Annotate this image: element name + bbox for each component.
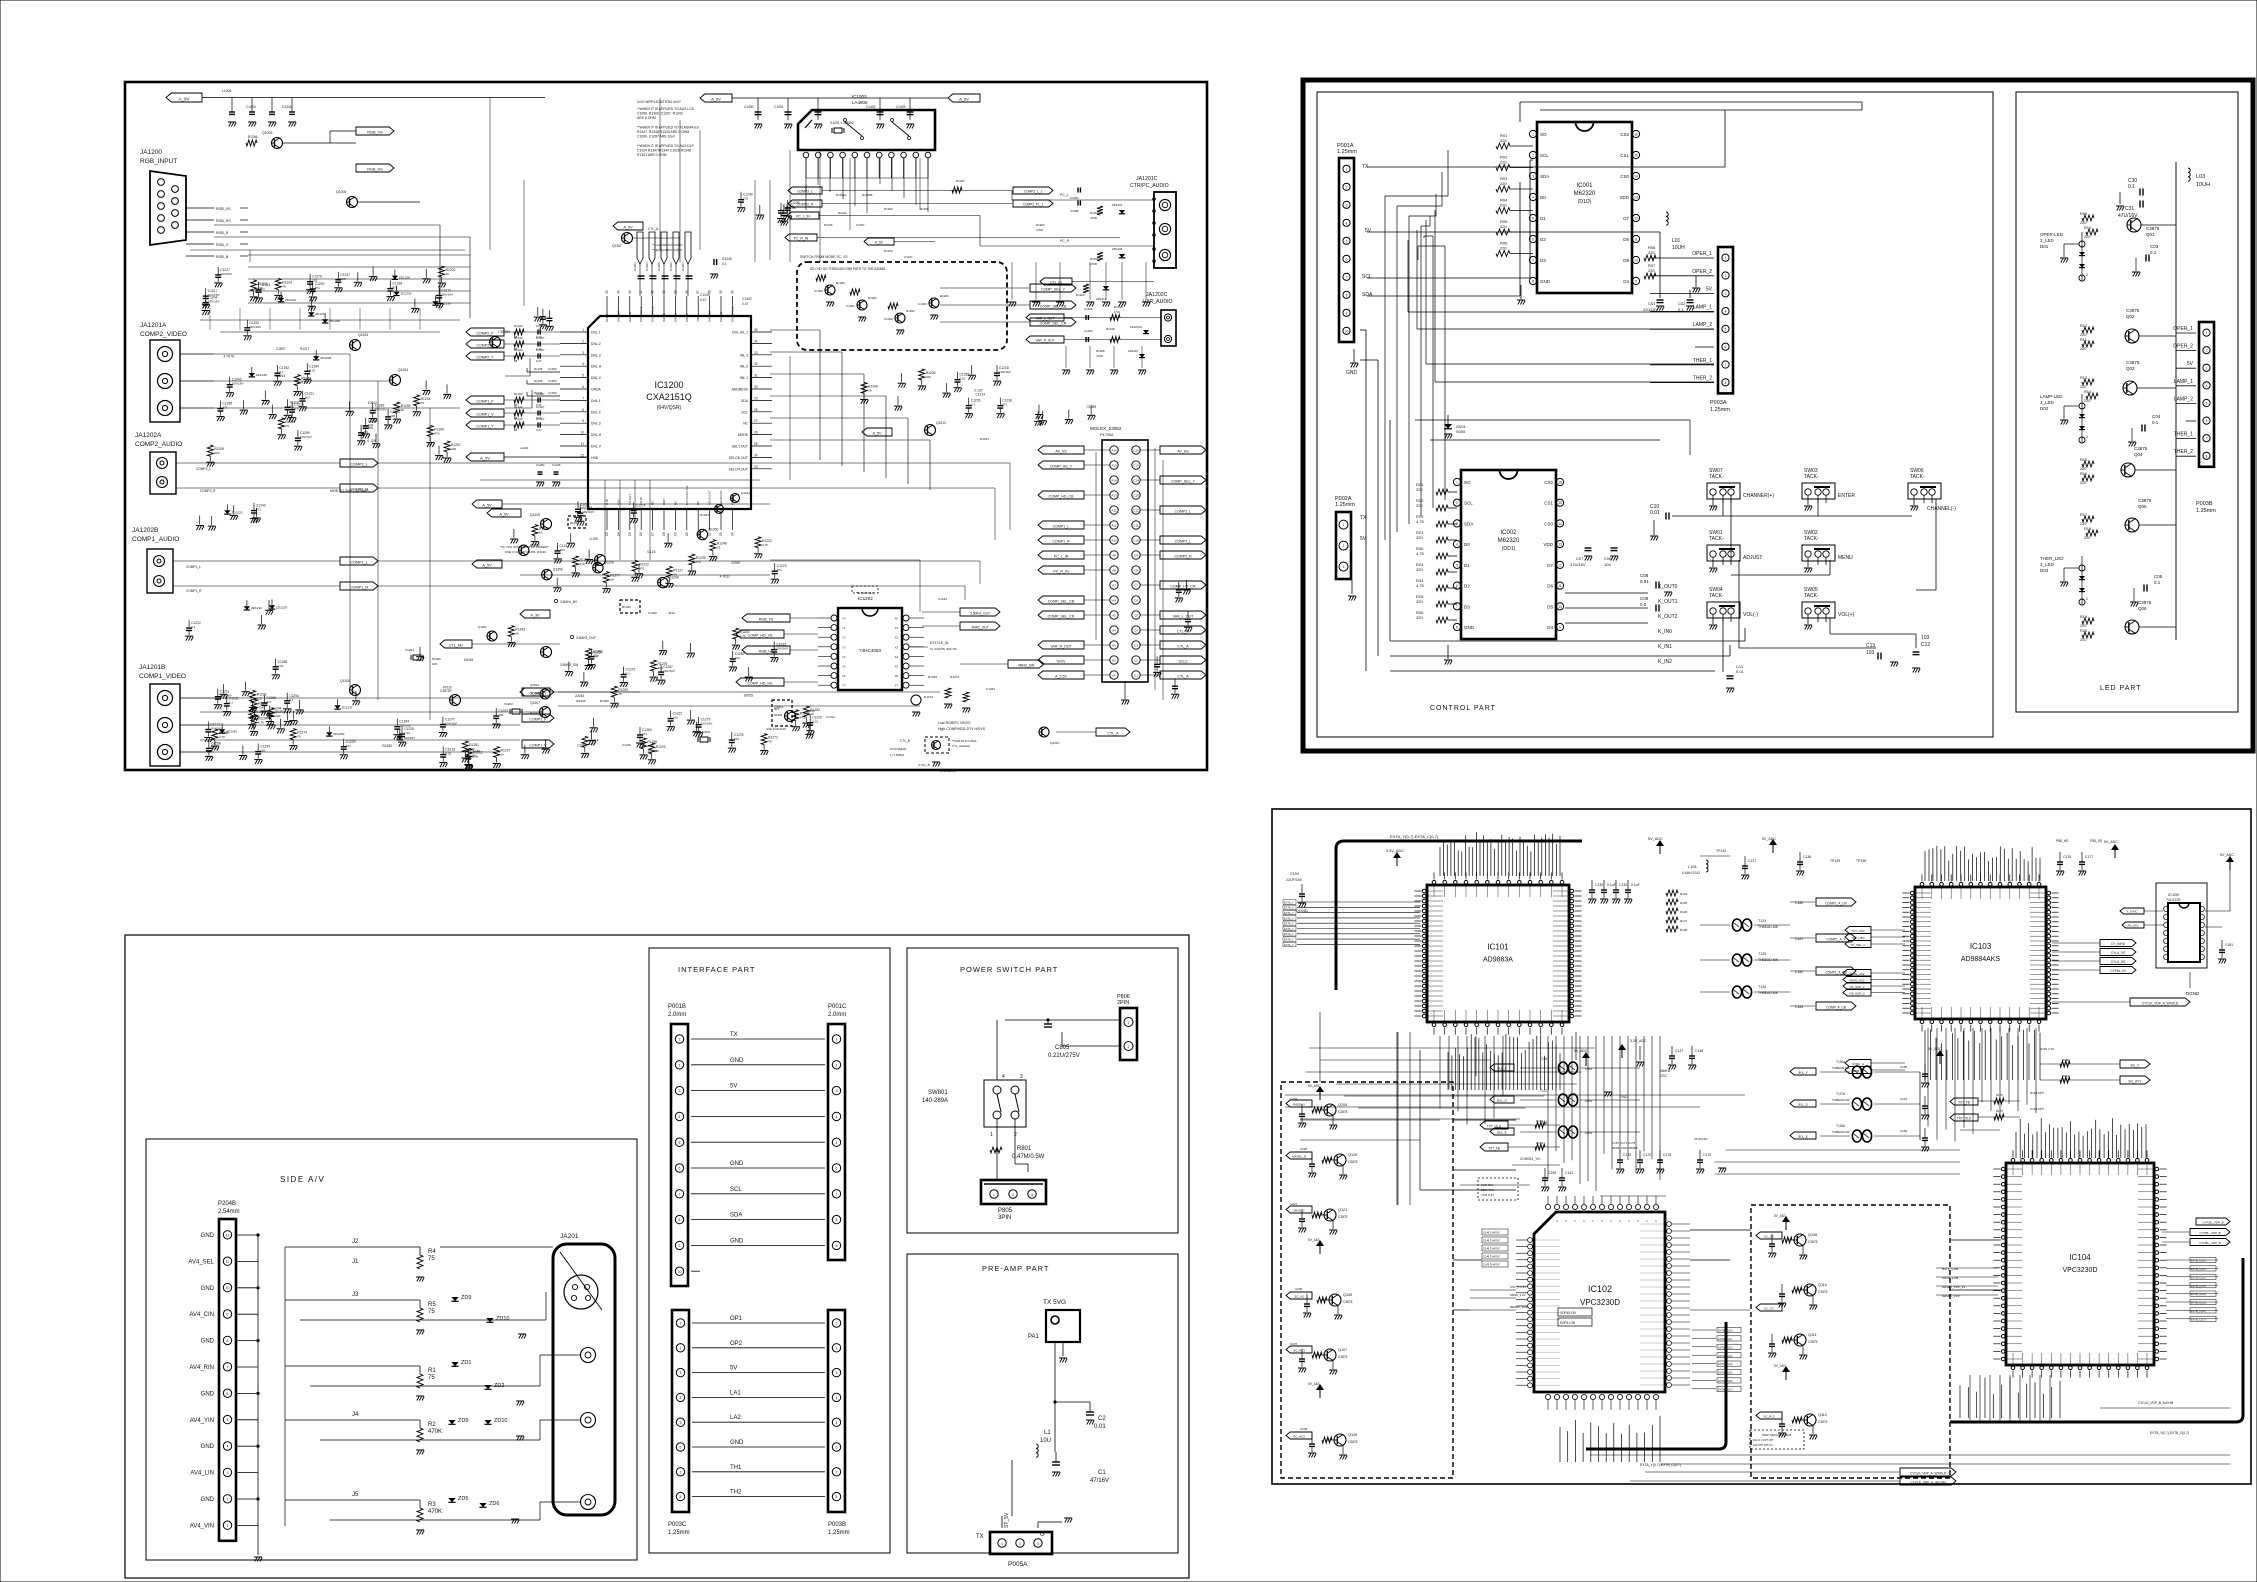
svg-text:32: 32 — [754, 362, 758, 366]
svg-text:AV_HS: AV_HS — [1177, 449, 1189, 453]
svg-text:AV4_RIN: AV4_RIN — [189, 1365, 214, 1371]
svg-text:CS2: CS2 — [1544, 480, 1553, 485]
svg-text:A13: A13 — [1111, 494, 1117, 498]
svg-text:5V: 5V — [2187, 361, 2194, 367]
svg-text:9: 9 — [836, 1244, 838, 1248]
svg-text:470K: 470K — [428, 1429, 442, 1435]
svg-text:C02: C02 — [1678, 301, 1686, 306]
svg-text:C1307: C1307 — [536, 348, 545, 352]
svg-text:K_IN2: K_IN2 — [1658, 659, 1672, 665]
svg-text:D4: D4 — [1623, 279, 1629, 284]
svg-text:EXTA_Y: EXTA_Y — [1284, 900, 1294, 904]
svg-text:BUL_F: BUL_F — [1798, 1070, 1808, 1074]
svg-text:4: 4 — [836, 1396, 838, 1400]
svg-text:RADD_Y: RADD_Y — [1293, 1102, 1305, 1106]
svg-text:0.159: 0.159 — [590, 537, 598, 541]
svg-text:PC_L_IN: PC_L_IN — [796, 214, 810, 218]
svg-text:R184 OPT: R184 OPT — [2030, 1091, 2044, 1095]
svg-text:Q1209: Q1209 — [530, 513, 540, 517]
svg-text:24: 24 — [730, 532, 734, 536]
svg-text:4.7K: 4.7K — [1416, 519, 1425, 524]
svg-text:PC_R: PC_R — [1060, 239, 1070, 243]
svg-text:10K: 10K — [258, 286, 264, 290]
svg-text:2: 2 — [1343, 544, 1345, 548]
svg-text:GND: GND — [1464, 625, 1475, 630]
svg-text:0.47: 0.47 — [700, 298, 707, 302]
svg-text:DNL.3: DNL.3 — [591, 353, 601, 357]
svg-text:C1290: C1290 — [648, 611, 657, 615]
svg-text:1=7.5MHZ: 1=7.5MHZ — [890, 753, 904, 757]
svg-text:COMP1_A_CR: COMP1_A_CR — [1825, 901, 1847, 905]
svg-text:GND: GND — [730, 1238, 744, 1244]
svg-text:C1024 R1347/R1344 C1026 R1348: C1024 R1347/R1344 C1026 R1348 — [637, 148, 691, 152]
svg-text:28: 28 — [754, 408, 758, 412]
svg-text:0.47M/0.5W: 0.47M/0.5W — [1012, 1154, 1045, 1160]
svg-text:15: 15 — [1558, 501, 1562, 505]
svg-text:0.1: 0.1 — [294, 407, 299, 411]
svg-text:2.54mm: 2.54mm — [218, 1209, 240, 1215]
svg-text:34: 34 — [754, 339, 758, 343]
svg-text:CS0: CS0 — [1544, 521, 1553, 526]
svg-text:13: 13 — [1634, 196, 1638, 200]
svg-text:Q109: Q109 — [1348, 1433, 1357, 1437]
svg-text:47UF/16V: 47UF/16V — [1694, 1137, 1708, 1141]
svg-text:TACK-: TACK- — [1910, 474, 1925, 480]
svg-text:R127: R127 — [1680, 919, 1688, 923]
svg-text:Q1203: Q1203 — [358, 333, 368, 337]
svg-text:20: 20 — [685, 532, 689, 536]
svg-text:5V_ADC: 5V_ADC — [1648, 837, 1663, 841]
svg-text:C1300: C1300 — [814, 289, 823, 293]
svg-text:4.7K32: 4.7K32 — [720, 575, 731, 579]
svg-text:DHL.HYL.3: DHL.HYL.3 — [730, 306, 734, 322]
svg-text:4.7K: 4.7K — [1416, 551, 1425, 556]
svg-text:C1244: C1244 — [938, 597, 947, 601]
svg-text:3_LED: 3_LED — [2040, 400, 2055, 405]
svg-text:Q1204: Q1204 — [398, 368, 408, 372]
svg-text:COMP_SEL_CR: COMP_SEL_CR — [1040, 321, 1067, 325]
svg-text:COMP2_PL_1: COMP2_PL_1 — [1023, 202, 1044, 206]
svg-text:L1: L1 — [1044, 1430, 1051, 1436]
svg-text:EXTB_C(12): EXTB_C(12) — [2191, 1275, 2206, 1279]
svg-text:5V: 5V — [730, 1084, 737, 1090]
svg-text:220: 220 — [275, 714, 280, 718]
svg-text:7: 7 — [680, 1470, 682, 1474]
svg-text:W1306: W1306 — [576, 699, 586, 703]
svg-text:DNL.V: DNL.V — [591, 376, 602, 380]
svg-text:C31: C31 — [2125, 206, 2134, 212]
svg-text:Q1003: Q1003 — [262, 131, 273, 135]
svg-text:C141: C141 — [1565, 1171, 1573, 1175]
svg-text:LAMP_2: LAMP_2 — [2174, 396, 2193, 402]
svg-text:R1266: R1266 — [248, 135, 258, 139]
svg-text:C220: C220 — [1300, 1147, 1308, 1151]
svg-text:1K: 1K — [868, 388, 873, 392]
svg-text:R1273: R1273 — [950, 675, 959, 679]
svg-text:Q1811: Q1811 — [478, 625, 487, 629]
svg-text:C3875: C3875 — [1348, 1440, 1358, 1444]
svg-text:C261: C261 — [1900, 1097, 1908, 1101]
svg-text:8: 8 — [582, 408, 584, 412]
svg-text:DHL.HYL.1: DHL.HYL.1 — [651, 306, 655, 322]
svg-text:ZD1233: ZD1233 — [285, 298, 296, 302]
svg-text:EXTA_Y: EXTA_Y — [1284, 943, 1294, 947]
svg-text:SO: SO — [1540, 132, 1547, 137]
svg-text:0.1uF: 0.1uF — [1631, 883, 1640, 887]
svg-text:L1203: L1203 — [520, 446, 529, 450]
svg-text:22: 22 — [708, 532, 712, 536]
svg-text:2: 2 — [836, 1346, 838, 1350]
svg-text:CHANNEL(-): CHANNEL(-) — [1927, 506, 1956, 512]
svg-text:5V_ADC: 5V_ADC — [1308, 1238, 1321, 1242]
svg-text:470R: 470R — [1090, 262, 1097, 266]
svg-text:COMP2_R: COMP2_R — [1174, 554, 1192, 558]
svg-text:ZD10: ZD10 — [496, 1316, 509, 1322]
svg-text:R1345: R1345 — [824, 223, 833, 227]
svg-text:1K: 1K — [515, 632, 520, 636]
svg-text:1.25mm: 1.25mm — [828, 1530, 850, 1536]
svg-text:CXA2151Q: CXA2151Q — [646, 392, 692, 402]
svg-text:D0: D0 — [1540, 195, 1546, 200]
svg-text:JA1202C: JA1202C — [1146, 292, 1168, 298]
svg-text:C205: C205 — [1295, 1287, 1303, 1291]
svg-text:75: 75 — [421, 401, 425, 405]
svg-text:4.7K78: 4.7K78 — [224, 355, 235, 359]
svg-text:0.129: 0.129 — [367, 439, 375, 443]
svg-text:SCL: SCL — [1362, 274, 1372, 280]
svg-text:TX 5VG: TX 5VG — [1043, 1299, 1066, 1306]
svg-text:C3875: C3875 — [1808, 1240, 1818, 1244]
svg-text:V: V — [1546, 1220, 1550, 1222]
svg-text:8: 8 — [227, 1339, 229, 1343]
svg-text:A5: A5 — [1112, 614, 1116, 618]
svg-text:A9: A9 — [1112, 554, 1116, 558]
svg-text:R1340: R1340 — [622, 605, 631, 609]
svg-text:A_5.5V: A_5.5V — [1055, 674, 1067, 678]
svg-text:C1203: C1203 — [633, 262, 637, 271]
svg-text:C181: C181 — [1795, 937, 1803, 941]
svg-text:A1: A1 — [1112, 674, 1116, 678]
svg-text:COMP1_AUDIO: COMP1_AUDIO — [132, 536, 179, 543]
svg-text:COMP2_R: COMP2_R — [797, 202, 814, 206]
svg-text:C9: C9 — [1134, 554, 1138, 558]
svg-text:C04: C04 — [2152, 414, 2161, 419]
svg-text:YS.OUT: YS.OUT — [628, 494, 632, 505]
svg-text:EXTB_C(11): EXTB_C(11) — [2191, 1267, 2206, 1271]
svg-text:SELY.OUT: SELY.OUT — [732, 445, 748, 449]
svg-text:10U: 10U — [1040, 1438, 1051, 1444]
svg-text:V: V — [1573, 1220, 1577, 1222]
svg-text:C3875: C3875 — [2146, 226, 2160, 231]
svg-text:10V/16V: 10V/16V — [999, 370, 1012, 374]
svg-text:3: 3 — [1020, 1074, 1023, 1080]
svg-text:EXTA_C(14): EXTA_C(14) — [1718, 1362, 1733, 1366]
svg-text:V: V — [1609, 1220, 1613, 1222]
svg-text:30: 30 — [754, 385, 758, 389]
svg-text:470R: 470R — [1096, 354, 1103, 358]
svg-text:COMP2_L_1: COMP2_L_1 — [1024, 189, 1043, 193]
svg-text:GND: GND — [730, 1161, 744, 1167]
svg-text:C1314: C1314 — [826, 715, 835, 719]
svg-text:RGB_VS: RGB_VS — [216, 207, 231, 211]
svg-text:C1807: C1807 — [276, 347, 286, 351]
svg-text:2: 2 — [2086, 273, 2088, 277]
svg-text:220: 220 — [2080, 624, 2086, 628]
svg-text:OPER_1: OPER_1 — [1692, 251, 1712, 257]
svg-text:CTL_HD: CTL_HD — [449, 643, 463, 647]
svg-text:Y3: Y3 — [842, 645, 846, 649]
svg-text:TXT_HSC: TXT_HSC — [1851, 936, 1866, 940]
svg-text:10V/16V: 10V/16V — [300, 435, 313, 439]
svg-text:7: 7 — [1532, 259, 1534, 263]
svg-text:VAR_AUDIO: VAR_AUDIO — [1143, 299, 1173, 305]
svg-text:23: 23 — [754, 465, 758, 469]
svg-text:2: 2 — [582, 339, 584, 343]
svg-text:220: 220 — [2084, 235, 2090, 239]
svg-text:COMP2_Y: COMP2_Y — [476, 355, 494, 359]
svg-text:C13: C13 — [1133, 494, 1139, 498]
svg-text:TACK-: TACK- — [1709, 474, 1724, 480]
svg-text:VAR_L_OUT: VAR_L_OUT — [1173, 614, 1195, 618]
svg-text:J5: J5 — [352, 1492, 359, 1498]
svg-text:C3875: C3875 — [1343, 1300, 1353, 1304]
svg-text:1: 1 — [680, 1322, 682, 1326]
svg-text:A_5V: A_5V — [711, 96, 721, 101]
svg-text:10V/16V: 10V/16V — [208, 293, 221, 297]
svg-text:Q121: Q121 — [1338, 1208, 1347, 1212]
svg-text:A8: A8 — [1112, 569, 1116, 573]
svg-text:8: 8 — [1725, 381, 1727, 385]
svg-text:0.01: 0.01 — [278, 664, 284, 668]
svg-text:220: 220 — [2084, 399, 2090, 403]
svg-text:FU51: FU51 — [1585, 1067, 1593, 1071]
svg-text:4: 4 — [1456, 543, 1458, 547]
svg-text:10V/16V: 10V/16V — [232, 382, 245, 386]
svg-text:3.3V_ADC: 3.3V_ADC — [1630, 1039, 1647, 1043]
svg-text:VAR_R_OUT: VAR_R_OUT — [1050, 644, 1072, 648]
svg-text:10K55: 10K55 — [744, 694, 754, 698]
svg-text:V: V — [1636, 1220, 1640, 1222]
svg-text:C1214: C1214 — [975, 392, 985, 396]
svg-text:P1700A: P1700A — [1100, 433, 1114, 437]
svg-text:THER_2: THER_2 — [1693, 376, 1712, 382]
svg-text:RGB_HS: RGB_HS — [216, 219, 231, 223]
svg-text:3.5MHZ_OUT: 3.5MHZ_OUT — [576, 636, 596, 640]
svg-text:R1: R1 — [428, 1368, 436, 1374]
svg-text:Q03: Q03 — [2126, 366, 2135, 371]
svg-text:35: 35 — [719, 290, 723, 294]
svg-text:IC104: IC104 — [2069, 1253, 2091, 1262]
svg-text:10V/16V: 10V/16V — [582, 510, 595, 514]
svg-text:7: 7 — [1346, 275, 1348, 279]
svg-text:PA1: PA1 — [1028, 1334, 1040, 1340]
svg-text:16: 16 — [639, 532, 643, 536]
svg-text:SCL: SCL — [741, 410, 748, 414]
svg-text:4.7K: 4.7K — [589, 742, 596, 746]
svg-text:AV4_YIN: AV4_YIN — [190, 1418, 214, 1424]
svg-text:MAIN_HS2: MAIN_HS2 — [1849, 978, 1864, 982]
svg-text:X6: X6 — [895, 674, 899, 678]
svg-text:C1400: C1400 — [744, 105, 754, 109]
svg-text:DHL.L3: DHL.L3 — [628, 311, 632, 322]
svg-text:VS_VDP_2: VS_VDP_2 — [1849, 985, 1865, 989]
svg-text:25: 25 — [754, 442, 758, 446]
svg-text:C1097: C1097 — [856, 223, 865, 227]
svg-text:75: 75 — [618, 692, 622, 696]
svg-text:KDP41:3R: KDP41:3R — [1560, 1321, 1576, 1325]
svg-text:2: 2 — [679, 1063, 681, 1067]
svg-text:P003B: P003B — [828, 1522, 846, 1528]
svg-text:471: 471 — [777, 568, 782, 572]
svg-text:27: 27 — [754, 419, 758, 423]
svg-text:R14: R14 — [2084, 390, 2091, 394]
svg-text:COMP2_VIDEO: COMP2_VIDEO — [140, 331, 187, 338]
svg-text:OPT: OPT — [774, 707, 780, 711]
svg-text:THER_LED: THER_LED — [2040, 556, 2064, 561]
svg-text:5V_ADC: 5V_ADC — [1308, 1084, 1321, 1088]
svg-text:OPER_2: OPER_2 — [1692, 269, 1712, 275]
svg-text:SELB.OUT: SELB.OUT — [719, 490, 723, 505]
svg-text:1: 1 — [2206, 331, 2208, 335]
svg-text:CHANNER(+): CHANNER(+) — [1743, 493, 1774, 499]
svg-text:CYVBL_VDP_B: CYVBL_VDP_B — [2199, 1231, 2220, 1235]
svg-text:8: 8 — [836, 1495, 838, 1499]
svg-text:R1347. R1348 R1349 ARE 0 OHM: R1347. R1348 R1349 ARE 0 OHM — [637, 130, 689, 134]
svg-text:R1261: R1261 — [868, 296, 877, 300]
svg-text:1.25mm: 1.25mm — [668, 1530, 690, 1536]
svg-text:USE FOR EUR: USE FOR EUR — [766, 727, 786, 731]
svg-text:CYF2D_VDP_B: CYF2D_VDP_B — [2202, 1220, 2223, 1224]
svg-text:Y4: Y4 — [842, 655, 846, 659]
svg-text:ZD1225: ZD1225 — [231, 510, 242, 514]
svg-text:C3875: C3875 — [1808, 1340, 1818, 1344]
svg-text:R1245: R1245 — [534, 391, 543, 395]
svg-text:8: 8 — [680, 1495, 682, 1499]
svg-text:RGB_VS: RGB_VS — [759, 617, 774, 621]
svg-text:14: 14 — [1634, 175, 1638, 179]
svg-text:14: 14 — [1558, 522, 1562, 526]
svg-text:CYCLK_VDP_A_4xCHM: CYCLK_VDP_A_4xCHM — [1910, 1480, 1946, 1484]
svg-text:R1340: R1340 — [884, 249, 893, 253]
svg-text:ZD1219: ZD1219 — [1128, 349, 1138, 353]
svg-text:470R: 470R — [1090, 216, 1097, 220]
svg-text:C1409: C1409 — [896, 105, 906, 109]
svg-text:3: 3 — [1532, 175, 1534, 179]
svg-text:EXTA_Y: EXTA_Y — [1284, 911, 1294, 915]
svg-text:C3875: C3875 — [1338, 1355, 1348, 1359]
svg-text:1: 1 — [1346, 167, 1348, 171]
svg-text:ST_5V: ST_5V — [1004, 1512, 1010, 1528]
svg-text:7: 7 — [679, 1192, 681, 1196]
svg-text:C1206: C1206 — [669, 262, 673, 271]
svg-text:R125: R125 — [1680, 901, 1688, 905]
svg-text:2.0mm: 2.0mm — [828, 1012, 846, 1018]
svg-text:12: 12 — [1558, 563, 1562, 567]
svg-text:ZD6: ZD6 — [489, 1501, 499, 1507]
svg-text:1: 1 — [1001, 1542, 1003, 1546]
svg-text:ZD1208: ZD1208 — [320, 356, 331, 360]
svg-text:CTL_B: CTL_B — [900, 739, 910, 743]
svg-text:47U/16V: 47U/16V — [1570, 562, 1586, 567]
svg-text:4: 4 — [1532, 196, 1534, 200]
svg-text:R1301 ARE 0 OHM: R1301 ARE 0 OHM — [637, 153, 667, 157]
svg-text:TACK-: TACK- — [1804, 593, 1819, 599]
svg-text:10: 10 — [1345, 329, 1349, 333]
svg-text:V: V — [1582, 1220, 1586, 1222]
svg-text:SELCB.OUT: SELCB.OUT — [729, 456, 748, 460]
svg-text:DHL.V: DHL.V — [591, 445, 602, 449]
svg-text:INTERFACE PART: INTERFACE PART — [678, 965, 755, 974]
svg-text:EXTCLK_IN: EXTCLK_IN — [930, 641, 949, 645]
svg-text:TXT_OLD: TXT_OLD — [1957, 1116, 1972, 1120]
svg-text:SELA.OUT: SELA.OUT — [708, 490, 712, 505]
svg-text:220: 220 — [2084, 536, 2090, 540]
svg-text:220: 220 — [2080, 481, 2086, 485]
svg-text:R801: R801 — [1017, 1146, 1032, 1152]
svg-text:7: 7 — [2206, 437, 2208, 441]
svg-text:OP2: OP2 — [730, 1341, 743, 1347]
svg-text:EXTA_Y(0-7),EXTA_C(0-7): EXTA_Y(0-7),EXTA_C(0-7) — [1390, 834, 1439, 839]
svg-text:R3: R3 — [428, 1502, 436, 1508]
svg-text:47/16V: 47/16V — [1090, 1478, 1109, 1484]
svg-text:COMP2_L: COMP2_L — [350, 462, 368, 466]
svg-text:EXTA_C(15): EXTA_C(15) — [1718, 1371, 1733, 1375]
svg-text:EXTA_C(16): EXTA_C(16) — [1718, 1379, 1733, 1383]
svg-text:GND: GND — [201, 1233, 215, 1239]
svg-text:**Low:RGB-PC AUDIO: **Low:RGB-PC AUDIO — [652, 243, 683, 247]
svg-text:R1238: R1238 — [1106, 327, 1115, 331]
svg-text:R1280: R1280 — [382, 744, 392, 748]
svg-text:1K: 1K — [401, 408, 406, 412]
svg-text:THBEAD-MK: THBEAD-MK — [1758, 925, 1779, 929]
svg-text:Q1207: Q1207 — [530, 701, 540, 705]
svg-text:A4: A4 — [1112, 629, 1116, 633]
svg-text:10V/16V: 10V/16V — [445, 722, 458, 726]
svg-text:Q1256: Q1256 — [553, 568, 563, 572]
svg-text:C1307: C1307 — [536, 417, 545, 421]
svg-text:C1248: C1248 — [648, 749, 657, 753]
svg-text:3: 3 — [227, 1471, 229, 1475]
svg-text:1: 1 — [836, 1038, 838, 1042]
svg-text:4MHZ_SW: 4MHZ_SW — [1018, 663, 1035, 667]
svg-text:RGB_HS: RGB_HS — [759, 649, 774, 653]
svg-text:103: 103 — [1921, 635, 1930, 641]
svg-text:VDD: VDD — [696, 315, 700, 322]
svg-text:D7: D7 — [1547, 563, 1553, 568]
svg-text:COMP_SEL_CB: COMP_SEL_CB — [1040, 304, 1067, 308]
svg-text:431A: 431A — [668, 611, 675, 615]
svg-text:220: 220 — [2080, 333, 2086, 337]
svg-text:Q05: Q05 — [2138, 504, 2147, 509]
svg-text:RGB_R: RGB_R — [216, 231, 229, 235]
svg-text:2: 2 — [227, 1497, 229, 1501]
svg-text:C3875: C3875 — [1338, 1110, 1348, 1114]
svg-text:VDD: VDD — [1619, 195, 1629, 200]
svg-text:2: 2 — [2086, 435, 2088, 439]
svg-text:R13: R13 — [2080, 376, 2087, 380]
svg-text:220: 220 — [1648, 268, 1655, 273]
svg-text:JA1202B: JA1202B — [132, 527, 158, 534]
svg-text:1: 1 — [1343, 523, 1345, 527]
svg-text:A_5V: A_5V — [623, 225, 633, 229]
svg-text:12: 12 — [226, 1233, 230, 1237]
svg-text:ZD1218: ZD1218 — [1112, 247, 1123, 251]
svg-text:A_9V: A_9V — [480, 455, 490, 460]
svg-text:COMP1_R: COMP1_R — [186, 589, 202, 593]
svg-text:3_LED: 3_LED — [2040, 562, 2055, 567]
svg-text:K_OUT2: K_OUT2 — [1658, 614, 1678, 620]
svg-text:0.01: 0.01 — [445, 752, 451, 756]
